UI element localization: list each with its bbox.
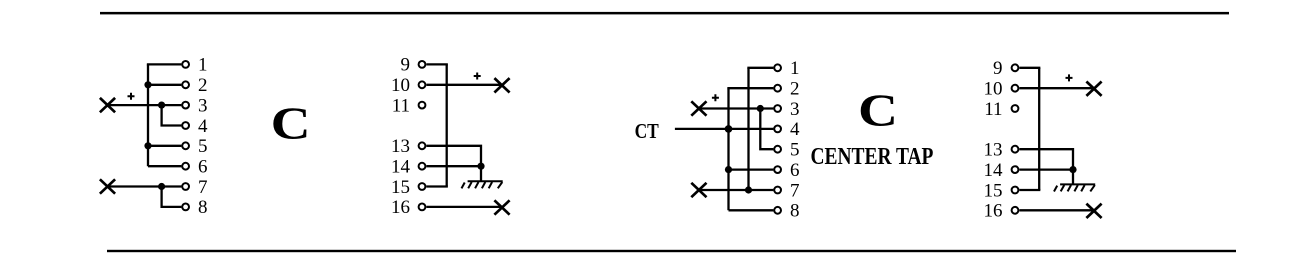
pin terminal circle 7 (CT side) xyxy=(774,187,781,194)
pin terminal circle 15 xyxy=(419,183,426,190)
pin terminal circle 1 (CT side) xyxy=(774,64,781,71)
pin terminal circle 16 (right) xyxy=(1012,207,1019,214)
wire pin 1 xyxy=(147,63,182,65)
pin terminal circle 10 xyxy=(419,81,426,88)
pin terminal circle 4 xyxy=(182,122,189,129)
pin terminal circle 5 xyxy=(182,142,189,149)
svg-text:9: 9 xyxy=(401,55,411,76)
wire pin 10 (to terminal X7) xyxy=(1019,87,1094,89)
svg-text:16: 16 xyxy=(391,197,410,218)
polarity plus sign A xyxy=(128,93,135,100)
svg-text:8: 8 xyxy=(198,197,208,218)
svg-text:1: 1 xyxy=(198,55,208,76)
pin terminal circle 3 xyxy=(182,102,189,109)
wire pin 10 (to terminal X3) xyxy=(426,84,502,86)
ground symbol (chassis) D xyxy=(1054,184,1095,191)
wire CT (center tap lead) xyxy=(675,128,774,130)
svg-text:1: 1 xyxy=(790,58,800,79)
ground symbol (chassis) B xyxy=(462,181,503,188)
wire pin 7 (from terminal X2) xyxy=(108,185,182,187)
svg-text:CT: CT xyxy=(635,119,659,143)
wire bus C-A (vertical, pin 2 to pin 8) xyxy=(727,88,729,210)
junction dot pin 3/4 xyxy=(158,102,165,109)
wire pin 16 (to terminal X8) xyxy=(1019,209,1094,211)
svg-text:9: 9 xyxy=(993,58,1003,79)
wire pin 3 (from terminal X5) xyxy=(699,107,774,109)
pin terminal circle 14 xyxy=(419,163,426,170)
svg-text:7: 7 xyxy=(198,177,208,198)
svg-text:13: 13 xyxy=(984,140,1003,161)
pin terminal circle 16 xyxy=(419,204,426,211)
terminal X2 (no-connect cross, pin 7 line) xyxy=(100,179,115,193)
polarity plus sign C xyxy=(712,94,719,101)
svg-text:8: 8 xyxy=(790,201,800,222)
svg-text:5: 5 xyxy=(790,140,800,161)
pin terminal circle 4 (CT side) xyxy=(774,125,781,132)
wire pin 2 xyxy=(148,84,181,86)
wire pin 15 xyxy=(426,185,447,187)
pin terminal circle 7 xyxy=(182,183,189,190)
pin terminal circle 2 xyxy=(182,81,189,88)
junction dot CT / bus C-A xyxy=(725,125,733,133)
svg-text:3: 3 xyxy=(790,99,800,120)
svg-text:2: 2 xyxy=(198,75,208,96)
pin terminal circle 6 (CT side) xyxy=(774,166,781,173)
junction dot pin 14 / ground (right) xyxy=(1069,166,1076,173)
wire pin 6 xyxy=(148,165,181,167)
pin terminal circle 9 xyxy=(419,61,426,68)
wire pin 4 riser xyxy=(162,105,182,125)
wire pin 6 xyxy=(729,168,774,170)
svg-text:13: 13 xyxy=(391,136,410,157)
wire pin 13 drop (right) xyxy=(1019,149,1073,169)
svg-text:10: 10 xyxy=(391,75,410,96)
wire pin 9 (right) xyxy=(1019,67,1040,69)
pin terminal circle 3 (CT side) xyxy=(774,105,781,112)
wire bus C-B (vertical, pin 1 to pin 7) xyxy=(747,68,749,190)
pin terminal circle 8 xyxy=(182,204,189,211)
svg-text:C: C xyxy=(858,86,898,137)
bottom border rule xyxy=(107,250,1236,252)
junction dot pin 6 / bus C-A xyxy=(725,166,732,173)
svg-text:10: 10 xyxy=(984,79,1003,100)
pin terminal circle 15 (right) xyxy=(1012,187,1019,194)
pin terminal circle 13 (right) xyxy=(1012,146,1019,153)
wire pin 8 riser xyxy=(162,187,182,207)
wire pin 2 xyxy=(727,87,773,89)
terminal X1 (no-connect cross, pin 3 line) xyxy=(100,98,115,112)
wire pin 5 xyxy=(148,145,181,147)
svg-text:5: 5 xyxy=(198,136,208,157)
wire bus D (vertical bus pins 9-15) xyxy=(1038,68,1040,190)
junction dot pin 14 / ground xyxy=(477,163,484,170)
pin terminal circle 1 xyxy=(182,61,189,68)
wire bus A (common vertical bus pins 1-6) xyxy=(147,64,149,166)
pin terminal circle 13 xyxy=(419,142,426,149)
wire pin 7 (from terminal X6) xyxy=(699,189,774,191)
junction dot pin 2 / bus A xyxy=(144,81,151,88)
pin terminal circle 14 (right) xyxy=(1012,166,1019,173)
terminal X7 (pin 10 line) xyxy=(1086,82,1101,96)
polarity plus sign D xyxy=(1066,74,1073,81)
junction dot pin 5 / bus A xyxy=(144,142,151,149)
svg-text:2: 2 xyxy=(790,79,800,100)
terminal X6 (pin 7 line) xyxy=(691,183,706,197)
pin terminal circle 11 xyxy=(419,102,426,109)
wire pin 1 xyxy=(747,67,773,69)
pin terminal circle 10 (right) xyxy=(1012,85,1019,92)
wire pin 16 (to terminal X4) xyxy=(426,206,502,208)
svg-text:4: 4 xyxy=(198,116,208,137)
pin terminal circle 5 (CT side) xyxy=(774,146,781,153)
top border rule xyxy=(100,12,1229,15)
wire pin 9 xyxy=(426,63,447,65)
svg-text:11: 11 xyxy=(392,95,410,116)
terminal X3 (pin 10 line) xyxy=(494,78,509,92)
wire pin 3-5 riser xyxy=(760,109,773,150)
wire pin 3 (from terminal X1) xyxy=(108,104,182,106)
junction dot pin 7/8 xyxy=(158,183,165,190)
pin terminal circle 8 (CT side) xyxy=(774,207,781,214)
terminal X8 (pin 16 line) xyxy=(1086,204,1101,218)
svg-text:6: 6 xyxy=(790,160,800,181)
svg-text:16: 16 xyxy=(984,201,1003,222)
wire pin 13 drop xyxy=(426,146,481,166)
wire pin 8 xyxy=(729,209,774,211)
svg-text:7: 7 xyxy=(790,180,800,201)
wire ground stub (right) xyxy=(1072,170,1074,185)
svg-text:CENTER TAP: CENTER TAP xyxy=(811,143,934,170)
wire pin 14 (right) xyxy=(1019,168,1073,170)
terminal X5 (pin 3 line) xyxy=(691,101,706,115)
svg-text:15: 15 xyxy=(984,180,1003,201)
svg-text:C: C xyxy=(271,99,311,150)
svg-text:4: 4 xyxy=(790,119,800,140)
svg-text:15: 15 xyxy=(391,177,410,198)
wire pin 14 xyxy=(426,165,481,167)
wire bus B (vertical bus pins 9-15) xyxy=(446,64,448,186)
terminal X4 (pin 16 line) xyxy=(494,200,509,214)
pin terminal circle 2 (CT side) xyxy=(774,85,781,92)
wire pin 15 (right) xyxy=(1019,189,1040,191)
svg-text:3: 3 xyxy=(198,95,208,116)
svg-text:11: 11 xyxy=(984,99,1002,120)
svg-text:14: 14 xyxy=(391,157,411,178)
junction dot pin 3/5 xyxy=(757,105,764,112)
junction dot pin 7 / bus C-B xyxy=(745,186,752,193)
svg-text:6: 6 xyxy=(198,157,208,178)
wire ground stub xyxy=(480,166,482,181)
pin terminal circle 9 (right) xyxy=(1012,64,1019,71)
polarity plus sign B xyxy=(474,73,481,80)
svg-text:14: 14 xyxy=(984,160,1004,181)
pin terminal circle 6 xyxy=(182,163,189,170)
pin terminal circle 11 (right) xyxy=(1012,105,1019,112)
